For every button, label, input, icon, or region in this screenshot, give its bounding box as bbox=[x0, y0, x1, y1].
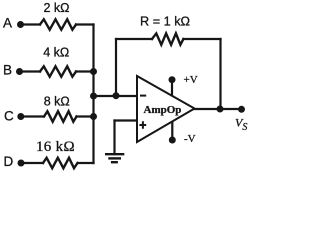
junction bus-inverting bbox=[90, 93, 97, 100]
svg-text:D: D bbox=[4, 154, 14, 169]
wire feedback top right bbox=[183, 38, 220, 40]
wire feedback right vertical bbox=[219, 39, 221, 109]
resistor 2k (A) bbox=[40, 19, 76, 29]
svg-text:-V: -V bbox=[184, 133, 196, 145]
wire B to bus bbox=[76, 70, 94, 72]
resistor R feedback 1k bbox=[152, 33, 183, 44]
resistor 16k (D) bbox=[43, 158, 78, 168]
svg-text:4 kΩ: 4 kΩ bbox=[43, 45, 69, 59]
svg-text:16 kΩ: 16 kΩ bbox=[36, 139, 75, 155]
terminal dot A bbox=[17, 21, 24, 28]
terminal dot +V bbox=[169, 76, 176, 83]
junction bus-B bbox=[90, 68, 97, 75]
terminal dot B bbox=[16, 68, 23, 75]
wire +V stem bbox=[171, 80, 173, 96]
wire feedback top left bbox=[116, 38, 152, 40]
wire feedback left vertical bbox=[115, 39, 117, 96]
wire non-inverting input bbox=[115, 119, 138, 121]
op-amp minus input symbol bbox=[140, 95, 146, 97]
wire inverting input bbox=[94, 95, 138, 97]
op-amp U1 triangle bbox=[137, 76, 195, 142]
ground bbox=[105, 154, 124, 162]
svg-text:R = 1 kΩ: R = 1 kΩ bbox=[140, 15, 190, 29]
wire A to bus bbox=[76, 23, 94, 25]
wire summing bus vertical bbox=[92, 25, 94, 164]
wire op-amp output bbox=[194, 108, 242, 110]
junction feedback-inverting bbox=[113, 92, 120, 99]
svg-text:A: A bbox=[3, 16, 12, 31]
wire input D bbox=[21, 162, 43, 164]
svg-text:B: B bbox=[3, 63, 12, 78]
resistor 4k (B) bbox=[40, 66, 76, 76]
junction output-feedback bbox=[217, 106, 224, 113]
wire -V stem bbox=[171, 122, 173, 140]
svg-text:2 kΩ: 2 kΩ bbox=[44, 1, 70, 15]
wire input B bbox=[20, 70, 40, 72]
wire D to bus bbox=[78, 162, 94, 164]
terminal dot -V bbox=[169, 137, 176, 144]
terminal dot C bbox=[17, 113, 24, 120]
op-amp plus input symbol bbox=[139, 121, 146, 129]
terminal dot Vs output bbox=[238, 106, 245, 113]
junction bus-C bbox=[90, 113, 97, 120]
wire input C bbox=[21, 115, 44, 117]
resistor 8k (C) bbox=[44, 111, 77, 121]
terminal dot D bbox=[18, 160, 25, 167]
svg-text:C: C bbox=[4, 109, 14, 124]
svg-text:+V: +V bbox=[184, 74, 198, 86]
wire C to bus bbox=[77, 115, 94, 117]
wire input A bbox=[21, 23, 40, 25]
wire to ground bbox=[113, 121, 115, 154]
svg-text:8 kΩ: 8 kΩ bbox=[44, 95, 70, 109]
svg-text:AmpOp: AmpOp bbox=[144, 104, 182, 116]
